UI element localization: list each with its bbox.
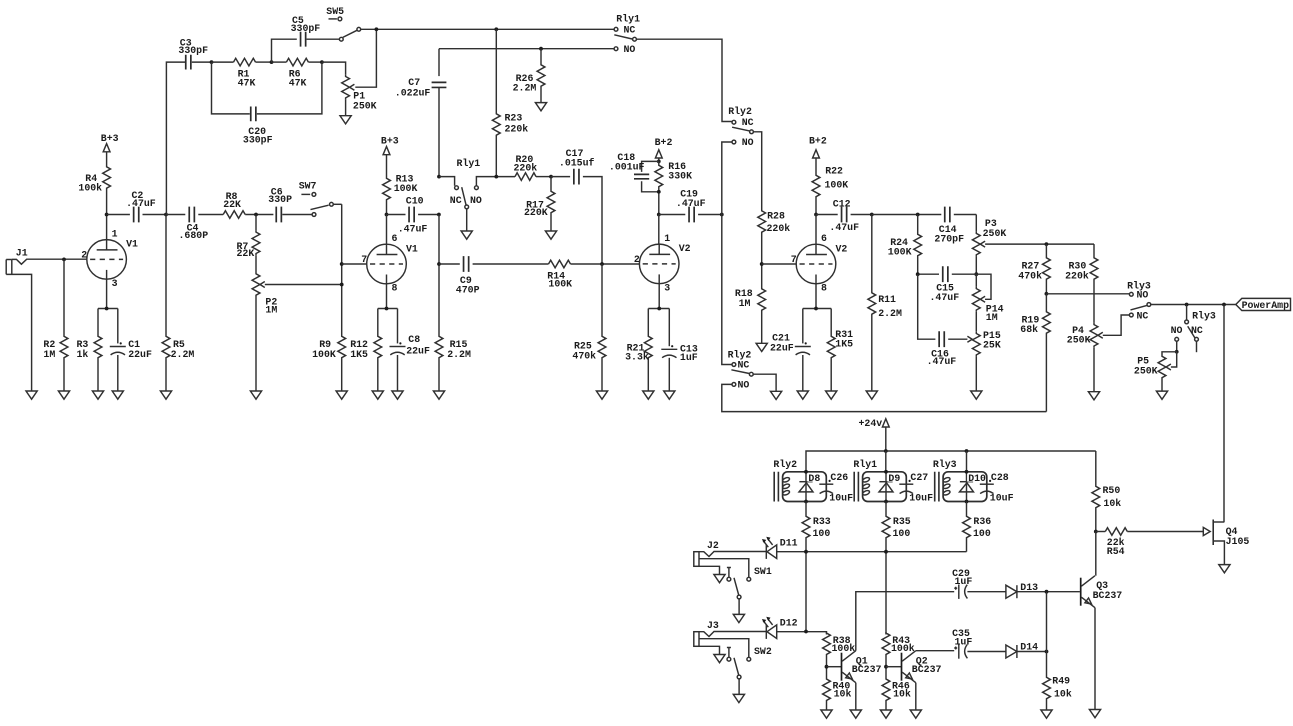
svg-text:R50: R50 [1103, 485, 1121, 496]
wire J3 sleeve [699, 646, 720, 654]
wire R27 to Rly3 NO [1046, 293, 1129, 295]
svg-text:D11: D11 [780, 538, 798, 549]
svg-text:100K: 100K [888, 247, 912, 258]
svg-text:D8: D8 [808, 473, 820, 484]
svg-text:NC: NC [1137, 310, 1149, 321]
capacitor C7 [395, 49, 447, 177]
relay contact Rly2 (top) [728, 106, 753, 148]
ground R21 [643, 391, 654, 399]
potentiometer P4 [1067, 315, 1130, 392]
svg-text:220k: 220k [1065, 270, 1089, 281]
ground R40 [821, 710, 832, 718]
wire Q2 emitter to ground [915, 683, 917, 710]
resistor R1 [212, 58, 272, 88]
svg-text:D10: D10 [968, 473, 986, 484]
wire V1b cathode [378, 284, 398, 311]
svg-text:100K: 100K [394, 183, 418, 194]
resistor R21 [625, 309, 652, 392]
wire top rail [361, 27, 614, 31]
svg-text:R49: R49 [1052, 675, 1070, 686]
diode D13 [1006, 582, 1080, 598]
resistor R19 [1020, 294, 1050, 412]
wire Q2 base [886, 666, 901, 668]
svg-text:1M: 1M [986, 312, 998, 323]
svg-text:Rly1: Rly1 [457, 158, 481, 169]
svg-text:100K: 100K [825, 179, 849, 190]
svg-text:SW5: SW5 [326, 6, 344, 17]
resistor R9 [312, 336, 346, 392]
svg-text:B+2: B+2 [655, 137, 673, 148]
svg-text:Rly2: Rly2 [728, 106, 752, 117]
svg-text:B+3: B+3 [101, 133, 119, 144]
svg-text:330pF: 330pF [243, 134, 273, 145]
ground SW2 [733, 694, 744, 702]
svg-text:470P: 470P [456, 284, 480, 295]
ground R25 [596, 391, 607, 399]
resistor R24 [888, 215, 922, 275]
resistor R18 [735, 287, 766, 343]
resistor R25 [572, 264, 606, 391]
svg-text:220K: 220K [524, 207, 548, 218]
svg-text:V1: V1 [406, 243, 418, 254]
potentiometer P3 [972, 215, 1094, 275]
wire J2 tip to relays [699, 550, 967, 557]
svg-text:NO: NO [1137, 290, 1149, 301]
svg-text:8: 8 [392, 282, 398, 293]
svg-text:R35: R35 [893, 516, 911, 527]
svg-text:2.2M: 2.2M [878, 308, 902, 319]
node C3/R1 junction [210, 60, 214, 64]
svg-text:470k: 470k [572, 350, 596, 361]
svg-text:7: 7 [791, 254, 797, 265]
potentiometer P14 [972, 274, 1003, 332]
svg-text:8: 8 [821, 282, 827, 293]
svg-text:R23: R23 [505, 112, 523, 123]
capacitor C18 [609, 152, 661, 194]
relay coil Rly3 [933, 451, 1014, 504]
node V2a plate junction [657, 213, 661, 217]
capacitor C2 [107, 190, 166, 223]
svg-text:100k: 100k [832, 643, 856, 654]
svg-text:100: 100 [813, 528, 831, 539]
capacitor C9 [439, 256, 549, 295]
svg-text:25K: 25K [983, 340, 1001, 351]
svg-text:B+2: B+2 [809, 136, 827, 147]
svg-text:Rly3: Rly3 [933, 459, 957, 470]
capacitor C17 [551, 148, 602, 264]
svg-text:NO: NO [470, 195, 482, 206]
svg-text:3: 3 [112, 278, 118, 289]
ground P2 [250, 391, 261, 399]
svg-text:100k: 100k [78, 183, 102, 194]
ground P1 [340, 116, 351, 124]
wire Q1 collector to C29 [856, 592, 954, 651]
svg-text:NO: NO [624, 44, 636, 55]
ground SW1 [733, 614, 744, 622]
svg-text:.47uF: .47uF [126, 198, 156, 209]
svg-text:10k: 10k [834, 688, 852, 699]
ground Q3 [1089, 710, 1100, 718]
wire +24v rail [806, 449, 1096, 472]
wire to V2b grid [762, 263, 797, 265]
svg-text:1uF: 1uF [955, 576, 973, 587]
svg-text:1M: 1M [43, 349, 55, 360]
resistor R22 [812, 166, 848, 215]
svg-text:NC: NC [738, 360, 750, 371]
node B+3 (V1b supply) [381, 135, 399, 177]
svg-text:100k: 100k [891, 643, 915, 654]
svg-text:BC237: BC237 [1093, 590, 1123, 601]
wire R8 to C6 [245, 213, 273, 217]
switch SW5 [326, 6, 360, 41]
capacitor C21 [770, 309, 811, 392]
node R6/P1 junction [320, 60, 324, 64]
wire Q4 drain to PowerAmp [1223, 305, 1225, 523]
resistor R27 [1018, 244, 1050, 294]
svg-text:22K: 22K [237, 248, 255, 259]
capacitor C16 [918, 274, 973, 367]
wire J1 tip to V1 grid [12, 258, 87, 265]
node C2/C4 junction [164, 213, 168, 217]
svg-text:330P: 330P [268, 194, 292, 205]
svg-text:.47uF: .47uF [927, 356, 957, 367]
svg-text:3: 3 [664, 282, 670, 293]
svg-text:PowerAmp: PowerAmp [1242, 300, 1289, 311]
node C15 junction [974, 272, 978, 276]
svg-text:Rly3: Rly3 [1192, 310, 1216, 321]
svg-text:R33: R33 [813, 516, 831, 527]
node B+2 (V2b supply) [809, 136, 827, 175]
wire SW7 to V1b grid [340, 204, 344, 335]
svg-text:C26: C26 [830, 472, 848, 483]
svg-text:C10: C10 [406, 196, 424, 207]
transistor Q2 [902, 651, 942, 683]
relay contact Rly1 (top) [614, 13, 640, 55]
svg-text:.015uf: .015uf [559, 157, 595, 168]
tube V1 triode B [361, 233, 418, 293]
resistor R40 [823, 679, 852, 710]
node C19/Rly2 junction [720, 213, 724, 217]
svg-text:10k: 10k [1103, 498, 1121, 509]
capacitor C15 [916, 266, 977, 303]
resistor R2 [43, 259, 68, 391]
svg-text:D12: D12 [780, 618, 798, 629]
svg-text:NC: NC [742, 117, 754, 128]
jack J2 [694, 540, 719, 566]
wire V2a cathode [648, 284, 669, 311]
wire Q1 base [827, 666, 842, 668]
svg-text:1K5: 1K5 [835, 339, 853, 350]
potentiometer P5 [1134, 352, 1177, 391]
wire V2b cathode [803, 284, 831, 311]
ground C8 [392, 391, 403, 399]
svg-text:NO: NO [1171, 325, 1183, 336]
relay coil Rly1 [853, 451, 933, 504]
svg-text:.47uF: .47uF [398, 223, 428, 234]
wire C2 node up to C3 [166, 62, 185, 214]
tube V2 triode B [791, 233, 848, 293]
resistor R13 [383, 173, 418, 214]
svg-text:6: 6 [392, 233, 398, 244]
ground Rly2 common [771, 391, 782, 399]
node C10/C7 junction [437, 213, 441, 217]
wire J3 tip to R38 [699, 630, 827, 637]
ground R11 [866, 391, 877, 399]
resistor R8 [223, 191, 245, 218]
svg-text:47K: 47K [238, 77, 256, 88]
svg-text:SW1: SW1 [754, 566, 772, 577]
ground R26 [535, 103, 546, 111]
svg-text:47K: 47K [289, 77, 307, 88]
relay contact Rly2 (bottom) [728, 350, 777, 392]
svg-text:R11: R11 [878, 294, 896, 305]
resistor R15 [435, 336, 471, 392]
svg-text:22uF: 22uF [128, 349, 152, 360]
wire V1a plate [105, 213, 109, 240]
svg-text:NC: NC [450, 195, 462, 206]
node V2b grid junction [760, 262, 764, 266]
svg-text:220k: 220k [514, 163, 538, 174]
svg-text:J1: J1 [16, 247, 28, 258]
wire return rail to Rly2 NO [722, 384, 1047, 411]
node R1/R6 junction [270, 60, 274, 64]
capacitor C10 [387, 196, 439, 235]
resistor R20 [514, 154, 552, 181]
node R17 junction [549, 175, 553, 179]
node B+2 (V2a supply) [655, 137, 673, 161]
resistor R43 [882, 632, 915, 679]
wire Q2 collector to C35 [916, 650, 954, 652]
resistor R26 [513, 49, 545, 103]
node D14/R49 junction [1045, 592, 1049, 654]
wire Rly1 common to Rly2 NC [636, 39, 732, 121]
resistor R49 [1043, 652, 1072, 711]
ground P5 [1156, 391, 1167, 399]
svg-text:10k: 10k [1054, 688, 1072, 699]
ground R31 [826, 391, 837, 399]
capacitor C6 [268, 187, 312, 223]
wire Q1 emitter to ground [855, 683, 857, 710]
node R14/R25 junction [600, 262, 604, 266]
svg-text:1uF: 1uF [680, 352, 698, 363]
ground R2 [58, 391, 69, 399]
svg-text:J3: J3 [707, 620, 719, 631]
ground Q1 [850, 710, 861, 718]
svg-text:C8: C8 [408, 334, 420, 345]
svg-text:1M: 1M [265, 304, 277, 315]
node Q1 base junction [825, 665, 829, 669]
wire to V1b grid [342, 263, 367, 265]
ground J2 sleeve [714, 575, 725, 583]
svg-text:SW7: SW7 [299, 180, 317, 191]
svg-text:NC: NC [1191, 325, 1203, 336]
ground R12 [372, 391, 383, 399]
svg-text:BC237: BC237 [912, 664, 942, 675]
resistor R35 [882, 502, 911, 635]
node R54 junction [1094, 530, 1098, 534]
svg-text:R36: R36 [973, 516, 991, 527]
resistor R3 [77, 309, 102, 392]
ground C21 [797, 391, 808, 399]
svg-text:J105: J105 [1226, 536, 1250, 547]
svg-text:.47uF: .47uF [829, 222, 859, 233]
ground R15 [433, 391, 444, 399]
svg-text:3.3k: 3.3k [625, 352, 649, 363]
svg-text:.47uF: .47uF [676, 198, 706, 209]
svg-text:NO: NO [738, 379, 750, 390]
svg-text:100K: 100K [312, 349, 336, 360]
svg-text:250K: 250K [983, 228, 1007, 239]
ground R18 [756, 343, 767, 351]
node B+3 (V1a supply) [101, 133, 119, 165]
relay coil Rly2 [773, 459, 853, 504]
node P3 wiper / R27 junction [1045, 242, 1049, 246]
svg-text:NO: NO [742, 137, 754, 148]
ground R49 [1041, 710, 1052, 718]
wire C7 branch (NO) [439, 48, 614, 50]
relay contact Rly3 (right) [1171, 305, 1216, 353]
ground R46 [880, 710, 891, 718]
ground J1 [26, 391, 37, 399]
svg-text:J2: J2 [707, 540, 719, 551]
resistor R14 [547, 260, 639, 289]
node P5 junction [1175, 350, 1179, 354]
svg-text:1: 1 [112, 229, 118, 240]
svg-text:10uF: 10uF [829, 493, 853, 504]
svg-text:10uF: 10uF [909, 493, 933, 504]
node C9 junction [437, 262, 441, 266]
ground C1 [112, 391, 123, 399]
svg-text:2: 2 [81, 249, 87, 260]
capacitor C1 [110, 309, 152, 392]
ground J3 sleeve [714, 655, 725, 663]
resistor R36 [963, 502, 992, 552]
svg-text:330K: 330K [668, 170, 692, 181]
svg-text:R54: R54 [1107, 546, 1125, 557]
wire J3 ring to SW2 [699, 639, 749, 658]
node V2b plate junction [814, 213, 818, 217]
ground R3 [92, 391, 103, 399]
svg-text:6: 6 [821, 233, 827, 244]
ground Rly1 mid [461, 231, 472, 239]
switch SW2 [727, 646, 772, 695]
node +24v supply [859, 418, 890, 451]
svg-text:D9: D9 [888, 473, 900, 484]
svg-text:330pF: 330pF [291, 23, 321, 34]
ground Q2 [910, 710, 921, 718]
svg-text:.022uF: .022uF [395, 87, 431, 98]
capacitor C19 [659, 188, 722, 222]
svg-text:220k: 220k [767, 223, 791, 234]
capacitor C29 [952, 568, 1006, 599]
svg-text:Rly1: Rly1 [853, 459, 877, 470]
svg-text:C28: C28 [991, 472, 1009, 483]
wire Q3 emitter to ground [1094, 608, 1096, 710]
svg-text:100K: 100K [548, 278, 572, 289]
svg-text:R22: R22 [825, 166, 843, 177]
wire R50 to Q3 collector [1095, 532, 1097, 576]
capacitor C13 [661, 309, 698, 392]
capacitor C5 [272, 15, 340, 62]
resistor R16 [655, 160, 692, 215]
tube V2 triode A [634, 233, 691, 293]
wire V2a plate lead [658, 215, 660, 245]
transistor Q1 [842, 651, 882, 683]
jack J1 [6, 247, 28, 274]
potentiometer P2 [252, 255, 342, 391]
wire J2 ring to SW1 [699, 559, 749, 578]
transistor Q4 (JFET) [1203, 520, 1249, 565]
ground P15 [971, 391, 982, 399]
ground C13 [664, 391, 675, 399]
switch SW1 [727, 566, 772, 615]
resistor R30 [1065, 244, 1098, 323]
svg-text:1uF: 1uF [955, 637, 973, 648]
svg-text:.47uF: .47uF [930, 292, 960, 303]
switch SW7 [299, 180, 342, 216]
ground Q4 source [1219, 565, 1230, 573]
wire V1a cathode [98, 279, 118, 310]
node R27/R19 junction [1045, 292, 1049, 296]
net flag PowerAmp [1236, 298, 1291, 311]
svg-text:100: 100 [973, 528, 991, 539]
resistor R11 [868, 215, 902, 392]
resistor R28 [758, 209, 790, 287]
svg-text:68k: 68k [1020, 324, 1038, 335]
svg-text:Rly1: Rly1 [616, 13, 640, 24]
resistor R7 [237, 215, 260, 259]
svg-text:100: 100 [893, 528, 911, 539]
svg-text:470k: 470k [1018, 270, 1042, 281]
wire J2 sleeve [699, 566, 720, 574]
node Q2 base junction [884, 665, 888, 669]
resistor R5 [162, 215, 194, 392]
wire C12 to C14 [872, 213, 942, 217]
relay contact Rly1 (mid) [450, 158, 482, 231]
wire J1 sleeve to ground [6, 274, 31, 391]
svg-text:22uF: 22uF [406, 345, 430, 356]
resistor R4 [78, 165, 110, 215]
svg-text:SW2: SW2 [754, 646, 772, 657]
svg-text:7: 7 [361, 254, 367, 265]
svg-text:2.2M: 2.2M [447, 349, 471, 360]
wire Rly2 NO down [722, 142, 732, 365]
node V1b plate junction [385, 213, 389, 217]
tube V1 triode A [81, 229, 138, 289]
capacitor C12 [816, 198, 872, 233]
ground P4 [1088, 392, 1099, 400]
node R23/R20 junction [494, 175, 498, 179]
svg-text:22uF: 22uF [770, 343, 794, 354]
svg-text:10k: 10k [893, 688, 911, 699]
wire Rly2 common to R28 [753, 132, 761, 209]
svg-text:C27: C27 [910, 472, 928, 483]
wire PowerAmp net [1151, 303, 1236, 307]
resistor R46 [882, 679, 911, 710]
diode D11 (LED) [762, 537, 798, 559]
capacitor C35 [952, 628, 1006, 659]
wire Rly1 NO to R20 [476, 177, 515, 186]
svg-text:R28: R28 [767, 210, 785, 221]
resistor R6 [272, 58, 322, 88]
svg-text:.680P: .680P [179, 230, 209, 241]
potentiometer P15 [972, 330, 1000, 391]
capacitor C4 [166, 207, 223, 241]
resistor R17 [524, 177, 555, 231]
svg-text:270pF: 270pF [934, 234, 964, 245]
svg-text:1K5: 1K5 [350, 349, 368, 360]
capacitor C14 [934, 207, 976, 245]
